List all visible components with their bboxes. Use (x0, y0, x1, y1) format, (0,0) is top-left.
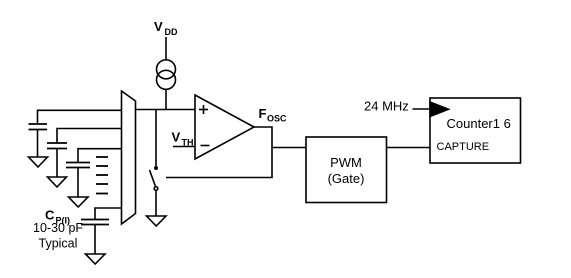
ground for C2 (48, 177, 67, 187)
svg-text:PWM: PWM (330, 155, 362, 170)
capacitor C2 (47, 129, 122, 178)
ground for C1 (29, 157, 48, 167)
svg-text:V: V (172, 130, 181, 145)
capacitor C4 CP(I) (81, 208, 122, 254)
ground for C3 (69, 197, 89, 207)
svg-text:Typical: Typical (39, 237, 78, 251)
wire VDD to current source (165, 37, 167, 60)
Counter16 block (430, 98, 521, 163)
wire 24 MHz clock input (413, 108, 431, 110)
ground for switch (147, 216, 167, 226)
node VTH label (172, 130, 194, 148)
svg-text:24 MHz: 24 MHz (364, 99, 409, 114)
capacitor C1 (29, 110, 122, 157)
wire FOSC to PWM (272, 147, 306, 149)
wire comparator output and feedback to switch (166, 127, 272, 178)
clock input triangle (430, 102, 449, 117)
op-amp comparator U2 (195, 95, 254, 159)
node FOSC label (259, 106, 288, 124)
svg-text:DD: DD (165, 27, 178, 37)
ground for C4 (86, 254, 106, 264)
svg-text:(Gate): (Gate) (328, 171, 365, 186)
current source I1 (157, 60, 176, 90)
analog mux U1 (122, 91, 136, 224)
svg-text:V: V (154, 19, 163, 34)
wire PWM to CAPTURE (387, 147, 431, 149)
svg-text:OSC: OSC (267, 114, 287, 124)
wire current source to node rail (165, 89, 167, 109)
power VDD label (154, 19, 178, 37)
label CP(I) value (33, 208, 83, 251)
svg-text:Counter1 6: Counter1 6 (447, 116, 511, 131)
svg-text:CAPTURE: CAPTURE (437, 141, 490, 153)
svg-text:10-30 pF: 10-30 pF (33, 221, 83, 235)
PWM (Gate) block (306, 137, 387, 203)
capacitor C3 (66, 149, 122, 197)
wire mux output rail to comparator (136, 109, 196, 111)
svg-text:F: F (259, 106, 267, 121)
wire VTH input (173, 146, 195, 148)
switch S1 (150, 110, 159, 217)
ellipsis dashes (more channels) (96, 157, 108, 194)
